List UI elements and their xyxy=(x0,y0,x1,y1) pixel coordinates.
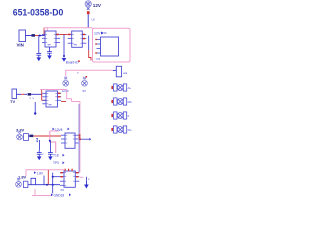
svg-text:Au: Au xyxy=(128,86,132,90)
svg-text:GND18: GND18 xyxy=(54,194,65,198)
svg-text:F: F xyxy=(128,114,130,118)
svg-text:L6: L6 xyxy=(92,18,96,22)
svg-text:5V: 5V xyxy=(83,89,87,93)
svg-text:VIN: VIN xyxy=(17,43,24,48)
svg-text:TV: TV xyxy=(10,99,15,104)
svg-text:TP0: TP0 xyxy=(53,161,59,165)
svg-text:Board-ID: Board-ID xyxy=(66,61,79,65)
svg-text:T18: T18 xyxy=(53,153,59,157)
svg-text:wa: wa xyxy=(123,71,127,75)
svg-text:3.3V: 3.3V xyxy=(16,128,25,133)
svg-text:12V: 12V xyxy=(94,32,101,36)
svg-text:MA: MA xyxy=(128,100,132,104)
svg-text:1.8V: 1.8V xyxy=(37,171,44,175)
svg-text:P2: P2 xyxy=(97,57,101,61)
svg-text:651-0358-D0: 651-0358-D0 xyxy=(13,7,64,17)
svg-text:12V8: 12V8 xyxy=(55,128,63,132)
svg-text:Mo: Mo xyxy=(128,128,132,132)
svg-text:12V: 12V xyxy=(93,3,102,8)
